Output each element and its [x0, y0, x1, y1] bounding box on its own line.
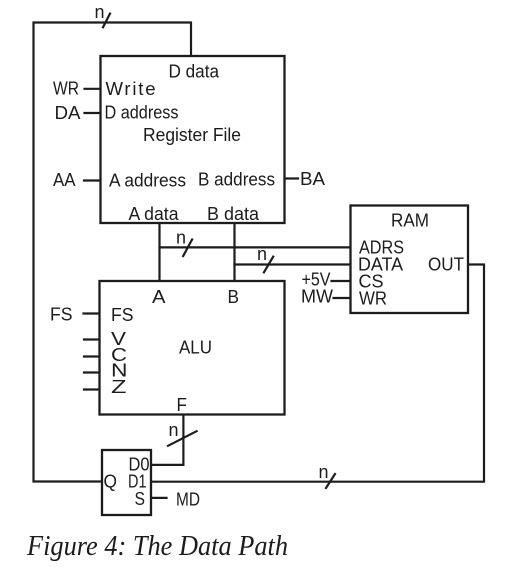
svg-text:WR: WR [359, 288, 387, 309]
svg-text:A data: A data [129, 203, 180, 224]
svg-text:FS: FS [111, 304, 134, 325]
wire: Z output tick [84, 388, 101, 390]
wire: FS input tick [84, 312, 101, 314]
svg-text:A address: A address [109, 170, 186, 191]
RAM block [351, 206, 469, 314]
svg-text:D data: D data [169, 61, 220, 82]
bus width slash (top D-data bus) [103, 14, 110, 28]
wire: A data branch to RAM ADRS [160, 246, 351, 248]
svg-text:FS: FS [50, 304, 73, 325]
wire: B data output from Register File down to ALU B input [233, 223, 235, 281]
svg-text:B data: B data [207, 203, 260, 224]
bus width slash (mux D1 bus) [326, 474, 335, 488]
svg-text:MD: MD [176, 489, 200, 510]
wire: RAM OUT down right side to mux D1 input [151, 265, 484, 482]
wire: V output tick [84, 338, 101, 340]
svg-text:Write: Write [106, 78, 156, 99]
svg-text:BA: BA [300, 168, 326, 189]
wire: +5V to RAM CS tick [332, 280, 351, 282]
svg-text:MW: MW [301, 286, 334, 307]
wire: D-data write-back bus (mux Q output, up left side, across top, down into Register File D data) [34, 23, 192, 482]
svg-text:n: n [257, 244, 267, 264]
wire: DA input tick [85, 112, 101, 114]
svg-text:n: n [95, 2, 105, 22]
svg-text:AA: AA [53, 169, 76, 190]
svg-text:Q: Q [104, 471, 118, 492]
svg-text:Register File: Register File [143, 124, 241, 145]
svg-text:Z: Z [111, 376, 127, 397]
wire: N output tick [84, 371, 101, 373]
svg-text:B: B [228, 286, 240, 307]
bus width slash (DATA bus) [264, 257, 273, 273]
svg-text:OUT: OUT [428, 254, 464, 275]
multiplexer block [102, 450, 151, 515]
svg-text:Figure 4: The Data Path: Figure 4: The Data Path [26, 531, 288, 562]
svg-text:A: A [152, 286, 166, 307]
svg-text:B address: B address [198, 169, 275, 190]
wire: MD to mux S tick [151, 497, 167, 499]
svg-text:DA: DA [55, 102, 82, 123]
wire: C output tick [84, 355, 101, 357]
bus width slash (ADRS bus) [183, 240, 192, 257]
svg-text:S: S [135, 488, 146, 509]
svg-text:D address: D address [105, 102, 179, 123]
svg-text:n: n [169, 420, 179, 440]
wire: ALU F output down and left into mux D0 [151, 415, 183, 465]
wire: BA output tick [285, 177, 299, 179]
wire: B data branch to RAM DATA [235, 263, 351, 265]
wire: WR input tick [85, 88, 101, 90]
ALU block [100, 281, 285, 415]
bus width slash (F bus) [168, 431, 197, 446]
svg-text:F: F [177, 394, 188, 415]
wire: AA input tick [84, 179, 100, 181]
svg-text:ALU: ALU [179, 337, 212, 358]
svg-text:n: n [176, 228, 186, 248]
wire: MW to RAM WR tick [334, 297, 351, 299]
svg-text:RAM: RAM [391, 210, 429, 231]
wire: A data output from Register File down to ALU A input [158, 223, 160, 281]
register file block [101, 56, 285, 223]
svg-text:WR: WR [53, 78, 79, 99]
svg-text:n: n [319, 462, 329, 482]
